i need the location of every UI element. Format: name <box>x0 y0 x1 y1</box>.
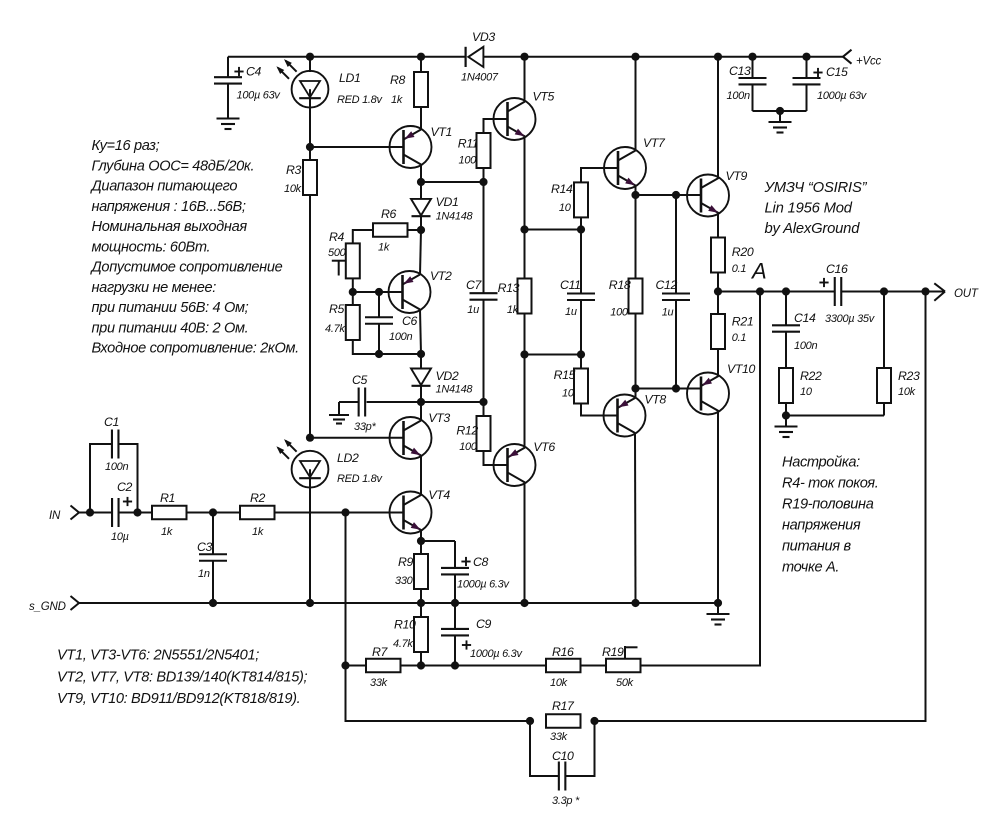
svg-text:точке А.: точке А. <box>782 560 839 576</box>
wire output feedback <box>595 292 926 722</box>
resistor R16 <box>546 645 581 689</box>
ground C13/C15 <box>769 111 792 133</box>
wire R5 to bottom line <box>353 340 421 354</box>
svg-text:R14: R14 <box>551 182 573 196</box>
node C6 top <box>375 288 383 296</box>
resistor R8 <box>390 57 428 107</box>
svg-text:IN: IN <box>49 510 61 522</box>
node VD2/C5/C7/VT3 <box>417 398 488 406</box>
svg-text:3300µ 35v: 3300µ 35v <box>825 313 876 325</box>
svg-text:R13: R13 <box>498 281 520 295</box>
svg-text:VT10: VT10 <box>727 362 756 376</box>
wire R15 to VT8 base <box>581 404 618 416</box>
svg-text:А: А <box>750 259 767 284</box>
wire VT3 emitter to VT4 collector <box>420 456 422 496</box>
svg-text:C15: C15 <box>826 65 848 79</box>
wire VT1 base <box>310 146 404 148</box>
resistor R18 <box>609 195 643 389</box>
svg-text:Настройка:: Настройка: <box>782 455 860 471</box>
wire feedback to VT4 base <box>345 513 347 666</box>
capacitor C9 (electrolytic) <box>441 603 523 666</box>
capacitor C15 (electrolytic) <box>793 57 868 111</box>
wire VT7 collector to rail <box>635 57 637 151</box>
junction dots on s_GND bus <box>209 599 722 607</box>
node R4/R5/VT2-base <box>349 288 357 296</box>
terminal IN <box>49 506 79 523</box>
svg-text:500: 500 <box>328 247 347 259</box>
wire node A line <box>718 291 944 293</box>
svg-text:VT2: VT2 <box>430 269 452 283</box>
transistor VT1 (PNP) <box>390 125 453 168</box>
svg-text:10: 10 <box>562 388 575 400</box>
svg-text:при питании 56В: 4 Ом;: при питании 56В: 4 Ом; <box>92 300 249 316</box>
svg-text:R21: R21 <box>732 315 754 329</box>
svg-text:R19: R19 <box>602 645 624 659</box>
wire node to VD1 <box>420 182 422 199</box>
node VT4-emitter/R9/C8 <box>417 537 455 545</box>
transistor VT3 (NPN) <box>390 411 451 459</box>
svg-text:10k: 10k <box>898 386 916 398</box>
svg-text:R10: R10 <box>394 618 416 632</box>
wire VT7 base to R14 <box>581 168 618 182</box>
terminal s_GND <box>29 596 79 613</box>
svg-text:VT3: VT3 <box>428 411 450 425</box>
svg-text:C5: C5 <box>352 373 368 387</box>
svg-text:напряжения : 16В...56В;: напряжения : 16В...56В; <box>92 199 246 215</box>
transistor VT9 (NPN) <box>687 169 748 217</box>
svg-text:Диапазон питающего: Диапазон питающего <box>90 179 238 195</box>
svg-text:C10: C10 <box>552 749 574 763</box>
node A junction R20/R21 <box>714 287 722 295</box>
resistor R3 <box>284 147 317 195</box>
svg-text:C9: C9 <box>476 617 492 631</box>
wire VT7 emitter <box>635 186 637 196</box>
svg-text:R22: R22 <box>800 369 822 383</box>
wire VT6 emitter to bus <box>524 483 526 604</box>
svg-text:VT1: VT1 <box>431 125 453 139</box>
svg-text:10: 10 <box>800 386 813 398</box>
svg-text:100n: 100n <box>727 90 750 102</box>
svg-text:10µ: 10µ <box>111 531 129 543</box>
ground C5 <box>329 402 349 424</box>
svg-text:100: 100 <box>459 441 478 453</box>
svg-text:1000µ 6.3v: 1000µ 6.3v <box>470 648 523 660</box>
svg-text:R3: R3 <box>286 163 302 177</box>
resistor R5 <box>325 292 360 340</box>
text block title <box>764 180 868 237</box>
svg-text:УМЗЧ “OSIRIS”: УМЗЧ “OSIRIS” <box>764 180 868 196</box>
svg-text:R9: R9 <box>398 555 414 569</box>
node VT2-collector/VD2 <box>417 350 425 358</box>
svg-text:C7: C7 <box>466 278 483 292</box>
text block specifications <box>90 138 299 357</box>
trimmer resistor R4 <box>328 230 360 278</box>
svg-text:Допустимое сопротивление: Допустимое сопротивление <box>90 260 283 276</box>
resistor R7 <box>366 645 401 689</box>
wire VD1 to node <box>420 216 422 230</box>
node R18/VT8-collector line <box>631 384 701 392</box>
svg-text:R4- ток покоя.: R4- ток покоя. <box>782 476 878 492</box>
svg-text:33p*: 33p* <box>354 421 376 433</box>
wire VT5 emitter <box>524 137 526 230</box>
ground power GND <box>707 603 730 625</box>
svg-text:33k: 33k <box>370 677 388 689</box>
svg-text:VT9, VT10: BD911/BD912(KT818/8: VT9, VT10: BD911/BD912(KT818/819). <box>57 691 300 707</box>
wire VT4 emitter <box>420 530 422 541</box>
svg-text:0.1: 0.1 <box>732 263 747 275</box>
transistor VT6 (PNP) <box>494 440 556 486</box>
terminal +Vcc <box>843 50 882 68</box>
wire R12 to VT6 base <box>484 451 508 465</box>
wire VT1 collector to node <box>420 165 422 183</box>
svg-text:R5: R5 <box>329 302 345 316</box>
ground C4 <box>217 108 240 130</box>
svg-text:RED 1.8v: RED 1.8v <box>337 94 383 106</box>
svg-text:4.7k: 4.7k <box>325 323 345 335</box>
svg-text:1k: 1k <box>391 94 403 106</box>
svg-text:R4: R4 <box>329 230 345 244</box>
node R22/R23 bottom <box>782 403 884 420</box>
svg-text:C3: C3 <box>197 540 213 554</box>
svg-text:VT2, VT7, VT8: BD139/140(KT814: VT2, VT7, VT8: BD139/140(KT814/815); <box>57 669 308 685</box>
svg-text:VD3: VD3 <box>472 30 495 44</box>
svg-text:R12: R12 <box>456 423 478 437</box>
svg-text:R15: R15 <box>554 368 576 382</box>
capacitor C16 (electrolytic) <box>819 262 875 325</box>
node VT1-collector/R11/C7 <box>417 178 488 186</box>
wire VT2 base <box>353 291 403 293</box>
svg-text:1u: 1u <box>662 307 674 319</box>
wire node to VD2 <box>420 354 422 369</box>
wire Vcc to LD1 <box>309 57 311 72</box>
svg-text:C16: C16 <box>826 262 848 276</box>
resistor R10 <box>393 603 428 666</box>
resistor R15 <box>554 355 588 404</box>
svg-text:Входное сопротивление: 2кОм.: Входное сопротивление: 2кОм. <box>92 341 299 357</box>
node output feedback tap <box>921 287 929 295</box>
resistor R9 <box>395 541 428 603</box>
svg-text:Номинальная выходная: Номинальная выходная <box>92 219 248 235</box>
diode VD3 <box>461 30 499 84</box>
capacitor C6 <box>365 292 418 354</box>
svg-text:VT8: VT8 <box>644 393 666 407</box>
text block transistor types <box>57 648 308 708</box>
capacitor C14 <box>772 292 817 369</box>
wire +Vcc rail <box>228 56 843 58</box>
text block tuning notes <box>782 455 878 576</box>
svg-text:C11: C11 <box>560 278 581 292</box>
node R23 top <box>880 287 888 295</box>
svg-text:4.7k: 4.7k <box>393 638 413 650</box>
resistor R21 <box>711 292 753 377</box>
svg-text:R6: R6 <box>381 207 397 221</box>
capacitor C12 <box>656 195 691 389</box>
resistor R17 <box>546 699 581 743</box>
resistor R1 <box>152 491 187 538</box>
wire R13 to VT6 collector <box>524 355 526 448</box>
capacitor C3 <box>197 513 227 604</box>
wire Vcc to VT5 collector <box>524 57 526 102</box>
transistor VT10 (PNP) <box>687 362 756 415</box>
svg-text:C4: C4 <box>246 65 262 79</box>
wire input line <box>79 512 404 514</box>
svg-text:R20: R20 <box>732 245 754 259</box>
svg-text:1n: 1n <box>198 568 210 580</box>
wire VT9 emitter to R20 <box>717 213 719 238</box>
node R17/C10 right <box>590 717 598 725</box>
capacitor C10 <box>530 721 595 807</box>
node C13/C15 ground <box>776 107 784 115</box>
wire feedback to R17 line <box>346 666 531 722</box>
svg-text:100n: 100n <box>794 340 817 352</box>
svg-text:VT5: VT5 <box>533 90 555 104</box>
svg-text:1k: 1k <box>378 242 390 254</box>
svg-text:1u: 1u <box>467 304 479 316</box>
node R7/feedback <box>341 661 349 669</box>
wire R7/R16/R19 line <box>346 292 761 666</box>
svg-text:C1: C1 <box>104 415 119 429</box>
svg-text:при питании 40В: 2 Ом.: при питании 40В: 2 Ом. <box>92 320 249 336</box>
svg-text:R23: R23 <box>898 369 920 383</box>
node C1/C2 left <box>86 508 94 516</box>
svg-text:C12: C12 <box>656 278 678 292</box>
wire VT2 emitter <box>420 230 421 275</box>
svg-text:1k: 1k <box>161 526 173 538</box>
diode VD2 <box>411 369 473 396</box>
svg-text:1N4148: 1N4148 <box>436 384 474 396</box>
svg-text:1000µ 6.3v: 1000µ 6.3v <box>457 579 510 591</box>
transistor VT4 (NPN) <box>390 488 451 534</box>
node R1/R2/C3 <box>209 508 217 516</box>
node R2/VT4-base/feedback <box>341 508 349 516</box>
svg-text:VT9: VT9 <box>726 169 748 183</box>
wire VT5 base to R11 <box>484 119 508 133</box>
capacitor C11 <box>560 230 595 355</box>
wire R8 to VT1 emitter <box>420 107 422 130</box>
svg-text:R11: R11 <box>458 137 479 151</box>
svg-text:R17: R17 <box>552 699 575 713</box>
diode VD1 <box>411 195 474 222</box>
label node A <box>750 259 767 284</box>
ground R22 <box>775 416 798 438</box>
wire LD2 to s_GND bus <box>309 469 311 603</box>
capacitor C13 <box>727 57 767 111</box>
svg-text:R18: R18 <box>609 278 631 292</box>
svg-text:100µ 63v: 100µ 63v <box>237 90 282 102</box>
node R3/LD2/VT3-base <box>306 434 314 442</box>
svg-text:нагрузки не менее:: нагрузки не менее: <box>92 280 217 296</box>
svg-text:LD2: LD2 <box>337 451 359 465</box>
wire R3 to LD2 node <box>309 195 311 438</box>
svg-text:C6: C6 <box>402 314 418 328</box>
svg-text:50k: 50k <box>616 677 634 689</box>
node VT7-emitter/R18 <box>631 191 701 199</box>
svg-text:100: 100 <box>610 307 629 319</box>
svg-text:VT4: VT4 <box>428 488 450 502</box>
svg-text:1000µ 63v: 1000µ 63v <box>817 90 868 102</box>
resistor R12 <box>456 402 490 453</box>
svg-text:1k: 1k <box>507 304 519 316</box>
transistor VT2 (PNP) <box>389 269 453 313</box>
wire Vcc to VT9 collector <box>717 57 719 179</box>
svg-text:R16: R16 <box>552 645 574 659</box>
wire VT3 collector <box>420 402 422 421</box>
node VT5-emitter/R13/R14-line <box>520 225 585 233</box>
capacitor C8 (electrolytic) <box>441 541 510 603</box>
svg-text:Lin 1956 Mod: Lin 1956 Mod <box>765 201 853 217</box>
svg-text:R8: R8 <box>390 73 406 87</box>
resistor R14 <box>551 182 588 230</box>
svg-text:C2: C2 <box>117 480 133 494</box>
resistor R11 <box>458 133 491 182</box>
wire VT3 base <box>310 437 404 439</box>
node R13/C11-line <box>520 350 585 358</box>
svg-text:R2: R2 <box>250 491 266 505</box>
svg-text:33k: 33k <box>550 731 568 743</box>
node R7/R10 <box>417 661 425 669</box>
svg-text:C14: C14 <box>794 311 816 325</box>
node R17/C10 left <box>526 717 534 725</box>
wire VD2 to node <box>420 386 422 402</box>
LED LD1 <box>276 59 383 107</box>
svg-text:VT7: VT7 <box>643 136 666 150</box>
svg-text:1u: 1u <box>565 306 577 318</box>
svg-text:Глубина ООС= 48дБ/20к.: Глубина ООС= 48дБ/20к. <box>92 158 255 174</box>
svg-text:VD2: VD2 <box>436 369 459 383</box>
svg-text:R7: R7 <box>372 645 389 659</box>
wire LD1 to node <box>309 89 311 147</box>
trimmer resistor R19 <box>602 645 641 689</box>
svg-text:OUT: OUT <box>954 288 979 300</box>
svg-text:мощность: 60Вт.: мощность: 60Вт. <box>92 239 211 255</box>
resistor R22 <box>779 368 822 403</box>
node C14/R22 top <box>782 287 790 295</box>
svg-text:10k: 10k <box>284 183 302 195</box>
wire VT2 collector <box>420 310 421 355</box>
svg-text:s_GND: s_GND <box>29 601 66 613</box>
wire VT8 collector stub <box>635 389 637 399</box>
svg-text:VT1, VT3-VT6: 2N5551/2N5401;: VT1, VT3-VT6: 2N5551/2N5401; <box>57 648 259 664</box>
resistor R23 <box>877 292 920 416</box>
resistor R6 <box>353 207 421 254</box>
node C9 bottom <box>451 661 459 669</box>
capacitor C2 (electrolytic) <box>111 480 133 543</box>
svg-text:RED 1.8v: RED 1.8v <box>337 473 383 485</box>
svg-text:1k: 1k <box>252 526 264 538</box>
svg-text:0.1: 0.1 <box>732 332 747 344</box>
svg-text:1N4007: 1N4007 <box>461 72 499 84</box>
resistor R20 <box>711 238 754 292</box>
capacitor C7 <box>466 182 498 402</box>
svg-text:by AlexGround: by AlexGround <box>765 221 861 237</box>
svg-text:1N4148: 1N4148 <box>436 210 474 222</box>
svg-text:330: 330 <box>395 575 414 587</box>
capacitor C1 <box>90 415 138 513</box>
wire C13/C15 bottom <box>753 110 807 112</box>
capacitor C4 <box>214 57 281 108</box>
junction dots on +Vcc rail <box>306 53 811 61</box>
node feedback tap <box>756 287 764 295</box>
resistor R13 <box>498 230 532 355</box>
LED LD2 <box>276 439 383 488</box>
terminal OUT <box>934 283 979 300</box>
node C2/R1 <box>133 508 141 516</box>
svg-text:3.3p *: 3.3p * <box>552 795 580 807</box>
svg-text:+Vcc: +Vcc <box>856 56 882 68</box>
svg-text:VT6: VT6 <box>533 440 555 454</box>
transistor VT7 (NPN) <box>604 136 666 189</box>
node VD1/R6/VT2-emitter <box>417 226 425 234</box>
svg-text:Ку=16 раз;: Ку=16 раз; <box>92 138 160 154</box>
capacitor C5 <box>339 373 421 433</box>
wire s_GND bus <box>79 602 718 604</box>
svg-text:100n: 100n <box>105 461 128 473</box>
svg-text:напряжения: напряжения <box>782 518 861 534</box>
svg-text:R1: R1 <box>160 491 175 505</box>
svg-text:C13: C13 <box>729 64 751 78</box>
svg-text:100n: 100n <box>389 331 412 343</box>
wire VT10 collector to bus <box>717 411 719 604</box>
svg-text:VD1: VD1 <box>436 195 459 209</box>
node LD1/R3/VT1-base <box>306 143 314 151</box>
wire R4 to node <box>352 278 354 292</box>
svg-text:LD1: LD1 <box>339 71 361 85</box>
svg-text:R19-половина: R19-половина <box>782 497 874 513</box>
resistor R2 <box>240 491 275 538</box>
node C6 bottom <box>375 350 383 358</box>
svg-text:C8: C8 <box>473 555 489 569</box>
svg-text:10k: 10k <box>550 677 568 689</box>
svg-text:питания в: питания в <box>782 539 851 555</box>
transistor VT8 (PNP) <box>604 393 667 437</box>
wire VT8 emitter to bus <box>634 433 637 603</box>
svg-text:100: 100 <box>459 155 478 167</box>
transistor VT5 (NPN) <box>494 90 555 141</box>
svg-text:10: 10 <box>559 202 572 214</box>
